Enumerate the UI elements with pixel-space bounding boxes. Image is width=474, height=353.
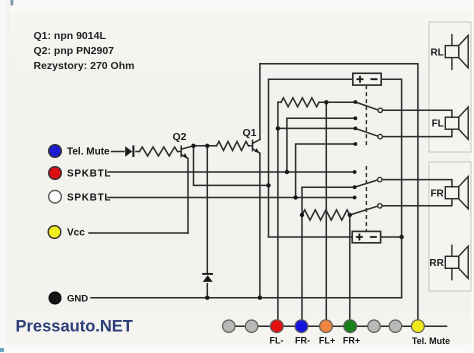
diode D1	[125, 145, 133, 157]
terminal Tel.Mute (blue)	[49, 145, 62, 158]
relay K1 pole A	[378, 108, 382, 112]
wire: relay2 throw from R4 left	[302, 186, 355, 188]
bead gray 4	[389, 320, 401, 332]
node: Q2 emitter / R2 junction	[191, 144, 195, 148]
wire: K1 poles to FL speaker	[383, 110, 452, 136]
speaker RR	[445, 245, 468, 281]
svg-text:Pressauto.NET: Pressauto.NET	[16, 318, 133, 336]
relay K1 switch arms	[355, 102, 377, 136]
wire: coil bus vertical	[268, 79, 270, 237]
svg-text:Q2: Q2	[173, 131, 187, 143]
bead gray 2	[245, 320, 257, 332]
wire: Vcc row	[89, 232, 188, 234]
wire: top rail to Tel.Mute output drop	[260, 64, 418, 326]
resistor R1	[140, 147, 178, 156]
wire: coil1 return	[381, 79, 401, 298]
svg-text:Q1: npn 9014L: Q1: npn 9014L	[34, 30, 107, 42]
terminal GND (black)	[49, 292, 61, 304]
wire: Q1 collector up to top rail	[259, 64, 261, 140]
speaker labels	[429, 47, 444, 269]
speaker FR	[445, 177, 468, 209]
bottom connector beads	[223, 320, 425, 333]
speaker RL	[445, 34, 468, 70]
bead gray 1	[223, 320, 235, 332]
wire: below diode to GND line	[206, 284, 208, 298]
wire: SPKBTL red row	[108, 171, 355, 173]
node: R4 left / FR- junction	[300, 213, 304, 217]
corner scan artifacts	[11, 0, 14, 6]
svg-text:GND: GND	[67, 293, 88, 304]
relay K1 throw contact A1	[354, 100, 358, 104]
svg-text:FR: FR	[430, 188, 444, 199]
wire: FL- riser	[277, 102, 279, 326]
wire: R2 to Q1 base	[249, 145, 253, 147]
bead FL- (red)	[270, 320, 283, 333]
node: mute diode branch junction	[205, 144, 209, 148]
svg-text:Vcc: Vcc	[67, 228, 85, 239]
svg-text:Rezystory: 270 Ohm: Rezystory: 270 Ohm	[34, 60, 135, 72]
svg-text:Tel. Mute: Tel. Mute	[67, 147, 110, 158]
wire: Tel.Mute row	[112, 151, 140, 153]
relay K1 actuator dashed link	[365, 85, 367, 147]
svg-text:Q1: Q1	[243, 127, 257, 139]
speaker panel bottom (FR, RR)	[429, 162, 471, 291]
terminal SPKBTL (red)	[49, 167, 62, 180]
wire: coil2 feed	[269, 236, 353, 238]
bead gray 3	[368, 320, 380, 332]
svg-text:RR: RR	[429, 258, 444, 269]
node: coil bus tap	[266, 183, 270, 187]
bead Tel.Mute (yellow)	[412, 320, 425, 333]
wire: Q2 drive drop and run to coil bus	[194, 146, 269, 186]
node: coil return junction	[399, 235, 403, 239]
transistor Q1	[253, 140, 260, 154]
wire: bottom connector rail	[223, 325, 447, 327]
relay K2 throw contact A2	[353, 185, 357, 189]
resistor R2	[217, 142, 249, 151]
info text block	[34, 30, 135, 72]
relay K1 throw contact B1	[354, 126, 358, 130]
relay K1 coil	[353, 73, 381, 85]
wire: coil1 feed	[269, 78, 353, 80]
wire: GND row	[91, 297, 402, 299]
relay K2 throw contact A1	[353, 170, 357, 174]
terminal Vcc (yellow)	[48, 226, 61, 239]
relay K2 throw contact B1	[353, 196, 357, 200]
svg-text:Tel. Mute: Tel. Mute	[412, 336, 450, 346]
resistor R4	[302, 210, 350, 220]
wire: top row Q2 to Q1	[194, 145, 217, 147]
wire: FR+ riser	[349, 215, 351, 326]
relay K1 throw contact A2	[354, 116, 358, 120]
svg-text:FR-: FR-	[295, 336, 310, 346]
node: diode D2 to GND	[205, 296, 209, 300]
bottom labels	[270, 336, 451, 347]
svg-text:Q2: pnp PN2907: Q2: pnp PN2907	[34, 45, 115, 57]
relay K2 coil	[352, 231, 380, 242]
svg-text:FR+: FR+	[343, 336, 360, 346]
svg-text:FL: FL	[432, 119, 444, 130]
bead FR- (blue)	[295, 320, 308, 333]
svg-text:FL-: FL-	[270, 336, 284, 346]
transistor Q1 emitter arrow	[255, 148, 260, 153]
wire: mute diode branch down	[206, 146, 208, 273]
wire: Q1 emitter down to GND	[259, 153, 261, 298]
relay K2 switch arms	[350, 180, 377, 215]
svg-text:SPKBTL: SPKBTL	[67, 192, 111, 203]
relay K2 pole A	[378, 177, 382, 181]
node: Q1 emitter to GND	[258, 296, 262, 300]
bead FR+ (green)	[344, 320, 357, 333]
terminal SPKBTL (white)	[49, 190, 62, 203]
wire: R1 to Q2 base	[178, 151, 182, 153]
node: SPKBTL white tap	[293, 195, 297, 199]
wire: relay1 throw line B	[278, 127, 356, 129]
wire: FL+ riser	[325, 102, 327, 326]
transistor Q2	[181, 146, 193, 233]
wire: R3 leads to relay K1 throw	[278, 101, 356, 103]
transistor labels	[173, 127, 257, 143]
relay K2 actuator dashed link	[365, 166, 367, 231]
wire: K2 poles to FR speaker	[382, 180, 452, 206]
wire: relay1 throw line from spk white	[296, 144, 356, 198]
svg-text:FL+: FL+	[319, 336, 335, 346]
node: R4 right / FR+ junction	[348, 213, 352, 217]
wire: coil2 return	[381, 236, 402, 238]
speaker panel top (RL, FL)	[429, 22, 471, 152]
svg-text:SPKBTL: SPKBTL	[67, 169, 111, 180]
diode D2	[202, 274, 213, 282]
svg-text:RL: RL	[430, 47, 443, 58]
node: FL- / throw line junction	[276, 126, 280, 130]
terminal labels	[67, 147, 111, 305]
relay K1 pole B	[378, 134, 382, 138]
resistor R3	[281, 98, 319, 107]
wire: R4 left riser / FR- drop	[301, 187, 303, 326]
node: R3 right / FL+ junction	[324, 100, 328, 104]
speaker FL	[445, 107, 468, 139]
relay K1 throw contact B2	[354, 142, 358, 146]
wire: SPKBTL white row	[108, 197, 355, 199]
node: SPKBTL red tap	[285, 170, 289, 174]
transistor Q2 emitter arrow	[183, 153, 188, 158]
bead FL+ (orange)	[320, 320, 333, 333]
wire: relay1 throw line from spk red	[287, 118, 356, 172]
relay K2 pole B	[378, 204, 382, 208]
